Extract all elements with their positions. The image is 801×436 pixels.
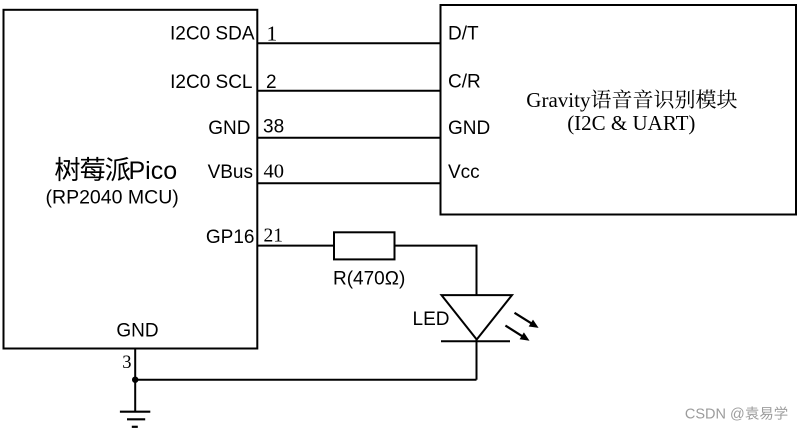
wire GND: pin38 to module GND: [257, 137, 440, 139]
svg-text:21: 21: [264, 226, 284, 247]
svg-text:3: 3: [122, 353, 131, 373]
svg-text:CSDN @: CSDN @: [685, 407, 745, 423]
svg-text:VBus: VBus: [208, 162, 253, 183]
ground symbol: [120, 412, 150, 427]
wire resistor to LED corner: [395, 246, 477, 296]
LED D1: [441, 295, 512, 341]
svg-text:GP16: GP16: [206, 227, 255, 248]
svg-text:GND: GND: [208, 118, 250, 139]
svg-text:38: 38: [263, 117, 284, 138]
MCU U1: Raspberry Pi Pico box: [4, 10, 258, 349]
watermark CSDN @袁易学: [685, 406, 788, 422]
MCU title: 树莓派Pico: [55, 157, 177, 185]
svg-text:Vcc: Vcc: [448, 162, 480, 183]
module U2: Gravity voice recognition module box: [441, 5, 797, 215]
svg-text:40: 40: [264, 160, 285, 182]
LED light emission arrows: [505, 313, 538, 341]
junction node: GND net: [132, 377, 138, 383]
svg-text:C/R: C/R: [448, 72, 481, 93]
svg-text:GND: GND: [116, 321, 158, 342]
svg-text:Pico: Pico: [129, 157, 178, 185]
svg-text:LED: LED: [413, 309, 450, 330]
svg-text:I2C0 SCL: I2C0 SCL: [170, 72, 252, 93]
svg-text:(RP2040 MCU): (RP2040 MCU): [46, 186, 179, 208]
wire GP16 to resistor: [257, 245, 334, 247]
svg-text:GND: GND: [448, 118, 490, 139]
svg-text:D/T: D/T: [448, 24, 479, 45]
svg-text:Gravity: Gravity: [526, 88, 591, 112]
module title: Gravity语音音识别模块: [526, 88, 737, 112]
resistor R 470 ohm: [334, 232, 395, 259]
wire pin3 GND down: [134, 349, 136, 412]
wire SDA: pin1 to D/T: [257, 42, 440, 44]
svg-text:(I2C & UART): (I2C & UART): [567, 111, 695, 135]
wire VBus: pin40 to Vcc: [257, 182, 440, 184]
svg-text:2: 2: [266, 72, 277, 93]
svg-text:1: 1: [267, 21, 278, 45]
wire SCL: pin2 to C/R: [257, 90, 440, 92]
wire LED cathode down: [476, 340, 478, 380]
wire bottom return to GND: [135, 379, 476, 381]
svg-text:I2C0 SDA: I2C0 SDA: [170, 24, 255, 45]
svg-text:R(470Ω): R(470Ω): [333, 268, 405, 289]
